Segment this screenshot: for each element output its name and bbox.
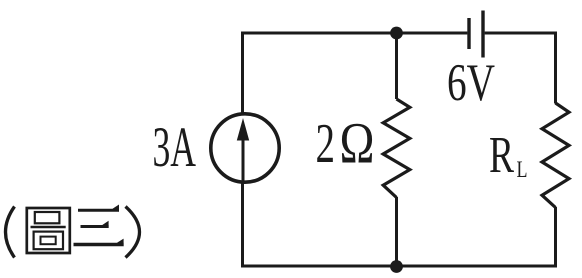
caption glyph SAN bottom stroke (74, 243, 124, 247)
wire left vertical upper (241, 32, 244, 114)
wire left vertical lower (241, 183, 244, 268)
wire right vertical lower (554, 207, 557, 266)
svg-text:R: R (489, 127, 514, 184)
current source I1 arrowhead (237, 118, 249, 141)
svg-text:L: L (517, 157, 528, 182)
svg-text:Ω: Ω (340, 111, 375, 176)
battery V1 left plate (short) (467, 18, 470, 49)
resistor RL zigzag (542, 103, 569, 208)
wire middle vertical upper (395, 33, 398, 99)
wire top-right horizontal segment (485, 32, 557, 35)
caption glyph SAN middle stroke (81, 225, 109, 228)
wire middle vertical lower (395, 197, 398, 266)
caption figure-3 opening parenthesis (6, 207, 15, 258)
caption figure-3 closing parenthesis (126, 207, 140, 258)
wire right vertical upper (554, 32, 557, 104)
current source I1 arrow shaft (242, 138, 245, 184)
wire bottom horizontal (241, 265, 557, 268)
caption glyph TU top mouth box (35, 212, 60, 223)
caption glyph SAN (three) top stroke (78, 209, 119, 212)
svg-text:3A: 3A (153, 116, 197, 179)
junction node top (dot) (390, 27, 403, 40)
wire top-left horizontal segment (241, 32, 467, 35)
svg-text:6V: 6V (447, 54, 495, 112)
junction node bottom (dot) (390, 260, 403, 273)
battery V1 right plate (long) (481, 11, 484, 58)
caption glyph TU bottom inner box (41, 237, 56, 245)
caption glyph TU middle horizontal stroke (31, 226, 66, 229)
current source I1 circle (211, 114, 279, 182)
resistor R1 2-ohm zigzag (383, 99, 410, 198)
caption glyph TU bottom outer box (34, 232, 63, 250)
caption glyph TU (figure) outer box (27, 208, 70, 253)
svg-text:2: 2 (316, 113, 336, 175)
